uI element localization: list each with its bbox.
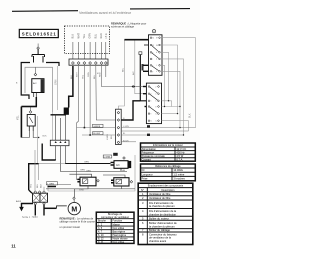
svg-text:la chambre du plénum: la chambre du plénum	[149, 224, 175, 228]
svg-text:BLU/W: BLU/W	[93, 133, 101, 135]
text sortie	[22, 216, 38, 219]
svg-text:6: 6	[155, 101, 156, 103]
svg-text:connecteur de ventilateur: connecteur de ventilateur	[101, 216, 129, 219]
fan connector table text	[98, 213, 129, 244]
svg-text:12: 12	[155, 121, 157, 123]
svg-text:RED: RED	[100, 72, 102, 77]
svg-text:30: 30	[152, 38, 154, 40]
svg-text:RED: RED	[100, 33, 103, 38]
svg-text:chambre avant: chambre avant	[149, 239, 166, 243]
svg-text:Prise: Prise	[142, 177, 148, 181]
svg-text:Masse: Masse	[113, 223, 121, 226]
svg-text:400 Hz: 400 Hz	[176, 150, 185, 154]
dark label on thick wire	[142, 64, 144, 71]
connector C101 dashed box	[65, 26, 110, 54]
svg-text:BLU: BLU	[94, 34, 97, 39]
R2 pin labels	[150, 86, 157, 122]
svg-text:Emplacement des composants: Emplacement des composants	[148, 184, 184, 188]
svg-text:6, 10: 6, 10	[98, 234, 104, 237]
under-hood fuse/relay box outline	[21, 63, 59, 100]
fuse box inner gray enclosure	[25, 67, 53, 112]
svg-text:14 AWG: 14 AWG	[173, 168, 183, 172]
svg-text:86: 86	[156, 45, 158, 47]
svg-text:Broche: Broche	[98, 220, 107, 223]
bus labels near strip	[123, 118, 129, 142]
connector pin above fuse	[37, 44, 40, 50]
svg-text:Longueur: Longueur	[142, 172, 153, 176]
svg-text:Bas régime: Bas régime	[113, 231, 126, 234]
svg-text:GRN: GRN	[80, 170, 85, 172]
thermo switch component	[27, 107, 35, 131]
svg-text:11: 11	[11, 243, 16, 248]
R1 contacts	[150, 37, 160, 72]
junction node	[38, 137, 39, 138]
svg-text:b: b	[156, 52, 157, 54]
svg-text:chambre de distribution: chambre de distribution	[149, 212, 177, 216]
svg-text:WHT: WHT	[77, 71, 79, 77]
svg-text:Informations sur le moteur: Informations sur le moteur	[153, 143, 183, 147]
table: component locations	[138, 183, 193, 244]
harness wires 2-7	[77, 66, 132, 179]
thick battery feed wire	[21, 103, 37, 138]
svg-text:Ventilateur du filtre: Ventilateur du filtre	[149, 196, 171, 200]
wires into 3-pin connector	[56, 115, 66, 140]
harness color labels	[71, 71, 102, 79]
svg-text:Courant: Courant	[142, 158, 152, 162]
svg-text:GRN: GRN	[86, 170, 91, 172]
inline connector symbol	[131, 85, 143, 87]
svg-text:B: B	[98, 72, 100, 74]
wires below 3-pin connector	[56, 146, 66, 172]
table: fan connector pinout	[96, 212, 134, 243]
gray feed wires to hatched pair	[35, 150, 44, 191]
wires from R1 right side	[162, 38, 196, 135]
wire label YEL left	[17, 115, 20, 120]
R1 pin number labels	[152, 38, 158, 74]
svg-text:1,5 mètre: 1,5 mètre	[173, 172, 185, 176]
table: motor info	[141, 143, 196, 161]
ground arrow A203	[16, 200, 24, 212]
fuse symbol above relay box	[32, 49, 45, 63]
C101 wire stubs	[73, 42, 106, 60]
gray wire GRN from fuse box	[55, 66, 58, 110]
note REMARQUE top	[111, 22, 146, 29]
svg-text:BLK: BLK	[41, 183, 43, 188]
svg-text:un premier travail.: un premier travail.	[60, 225, 81, 229]
svg-text:3: 3	[150, 94, 151, 96]
svg-text:BLK: BLK	[71, 74, 73, 79]
connector strip (7-pin)	[69, 59, 108, 65]
connector ring above relay R1	[152, 30, 155, 33]
svg-text:4: 4	[155, 94, 156, 96]
wires relays to lower area	[74, 179, 121, 198]
svg-text:GRN: GRN	[88, 72, 90, 77]
relay B (fan relay 2)	[103, 170, 133, 186]
relay/control box R1	[149, 35, 163, 76]
svg-text:BLU: BLU	[94, 74, 96, 79]
relay/control box R2	[146, 83, 161, 124]
svg-text:11: 11	[150, 121, 152, 123]
svg-text:5: 5	[150, 101, 151, 103]
relay A (fan relay)	[69, 170, 99, 185]
main harness wire 1 (thick)	[69, 66, 73, 108]
svg-text:0,7 A: 0,7 A	[176, 158, 182, 162]
wires into R1 left	[143, 45, 149, 71]
diode box D1	[111, 157, 132, 171]
note REMARQUE bottom	[60, 216, 96, 229]
connector stub box at top of thick wire	[139, 52, 142, 55]
svg-text:B: B	[16, 83, 18, 85]
wire labels bottom left	[30, 183, 42, 188]
wires at hatched pair	[29, 187, 67, 216]
svg-text:7: 7	[150, 106, 151, 108]
svg-text:Non utilisé: Non utilisé	[113, 227, 125, 230]
dark bus labels	[147, 125, 150, 136]
svg-text:WHB: WHB	[79, 190, 84, 192]
svg-text:8: 8	[155, 106, 156, 108]
svg-text:Fréquence: Fréquence	[142, 150, 155, 154]
svg-text:schémas et câblage: schémas et câblage	[111, 25, 135, 29]
svg-text:4, 7: 4, 7	[98, 231, 103, 234]
page title text	[79, 11, 132, 15]
svg-text:GRN: GRN	[89, 33, 92, 39]
svg-text:GRN: GRN	[55, 79, 58, 85]
svg-text:LGRN: LGRN	[107, 134, 109, 140]
ground wire	[22, 204, 34, 208]
svg-text:Boîtier du moteur: Boîtier du moteur	[149, 217, 169, 221]
long bus wires middle	[77, 128, 196, 142]
table motor info text	[142, 143, 187, 162]
thick bus below splice	[51, 114, 67, 116]
R2 contacts	[148, 86, 159, 122]
gray wire from C101 area down right	[118, 40, 143, 109]
svg-text:87: 87	[156, 38, 158, 40]
svg-text:L GRN: L GRN	[47, 183, 54, 185]
relay in fuse box	[32, 67, 44, 92]
svg-text:85: 85	[152, 45, 154, 47]
svg-text:1, 2: 1, 2	[98, 223, 103, 226]
svg-text:BLU: BLU	[123, 67, 125, 72]
relay prong wires	[34, 93, 37, 98]
svg-text:10: 10	[155, 113, 157, 115]
svg-text:GRN/B: GRN/B	[93, 126, 100, 128]
diagram ID label SELD016521	[19, 29, 58, 37]
svg-text:BLU: BLU	[37, 183, 39, 188]
svg-text:Description: Description	[162, 188, 176, 192]
wires right of relays	[46, 185, 135, 189]
junction squares on bus	[84, 127, 185, 136]
table component locations text	[141, 184, 184, 244]
wires into R2 left (thick stubs)	[143, 87, 146, 107]
wire label boxes on bus	[93, 124, 104, 135]
svg-text:WHB: WHB	[120, 170, 126, 172]
wire label right bundle	[123, 67, 135, 75]
3-pin connector C201	[50, 140, 69, 146]
svg-text:YEL: YEL	[83, 33, 86, 38]
svg-text:A/C: A/C	[33, 82, 37, 85]
svg-text:4,5 W: 4,5 W	[176, 154, 183, 158]
label LT GRN box	[103, 155, 112, 159]
svg-text:BLK: BLK	[188, 113, 191, 118]
svg-text:Ventilateur du filtre: Ventilateur du filtre	[149, 192, 171, 196]
svg-text:Sortie 1 : 565X: Sortie 1 : 565X	[22, 216, 38, 219]
middle gray verticals	[38, 112, 53, 164]
svg-text:Haut régime: Haut régime	[113, 234, 127, 237]
svg-text:Puissance nominale: Puissance nominale	[142, 154, 166, 158]
table: connector info	[141, 164, 196, 181]
svg-text:A/C: A/C	[132, 71, 135, 75]
svg-text:SELD016521: SELD016521	[22, 31, 57, 36]
page title rule	[12, 9, 190, 12]
svg-text:BLK: BLK	[72, 34, 75, 39]
svg-text:d: d	[156, 59, 157, 61]
dark harness label	[113, 153, 118, 156]
svg-text:M: M	[71, 206, 77, 213]
svg-text:Fil: Fil	[142, 168, 145, 172]
svg-text:L GRN: L GRN	[104, 157, 111, 159]
svg-text:YEL: YEL	[17, 115, 20, 120]
splice box	[64, 108, 69, 115]
hatched connector pair	[33, 191, 48, 205]
svg-text:A203: A203	[16, 200, 22, 203]
svg-text:BLK: BLK	[43, 136, 48, 138]
label L GRN	[47, 182, 58, 186]
svg-text:A/C: A/C	[116, 164, 120, 167]
svg-text:la chambre du plénum: la chambre du plénum	[149, 204, 175, 208]
svg-text:câblage montre le fil de cours: câblage montre le fil de course	[60, 219, 96, 223]
svg-text:Ventilateurs avant et à l'exté: Ventilateurs avant et à l'extérieur	[79, 11, 132, 15]
gray enclosure bottom	[48, 155, 135, 191]
table connector info text	[142, 164, 186, 181]
svg-text:Alimentation: Alimentation	[142, 147, 157, 151]
C101 wire color labels (rotated)	[72, 33, 108, 39]
svg-text:Non utilisé: Non utilisé	[113, 241, 125, 244]
svg-text:3 broches: 3 broches	[173, 177, 185, 181]
wire label BLK right	[188, 113, 191, 118]
vertical connector strip C605	[116, 109, 122, 144]
junction dots right	[164, 100, 181, 114]
wires from switch to bus	[21, 131, 38, 138]
svg-text:9, 11: 9, 11	[98, 241, 104, 244]
svg-text:Fonction: Fonction	[113, 220, 123, 223]
thick feed to relay R1	[121, 40, 148, 120]
svg-text:LT G: LT G	[105, 33, 108, 38]
svg-text:3, 5: 3, 5	[98, 227, 103, 230]
svg-text:12 V CC: 12 V CC	[176, 147, 186, 151]
svg-text:h: h	[156, 71, 157, 73]
svg-text:Boîtier du câblage: Boîtier du câblage	[149, 228, 170, 232]
svg-text:a: a	[152, 52, 153, 54]
wires from R2 right side	[162, 101, 189, 131]
svg-text:N°: N°	[141, 188, 144, 192]
svg-text:2: 2	[155, 86, 156, 88]
svg-text:e: e	[152, 65, 153, 67]
label GRN on bus	[80, 170, 85, 172]
motor M1	[68, 197, 80, 215]
svg-text:YEL: YEL	[30, 183, 32, 188]
svg-text:WHT: WHT	[77, 33, 80, 39]
svg-text:Référence du câblage: Référence du câblage	[155, 164, 181, 168]
svg-text:g: g	[152, 71, 153, 73]
thick wire L to connector	[29, 144, 56, 191]
page number	[11, 243, 16, 248]
wire to diode box	[65, 163, 110, 165]
svg-text:9: 9	[150, 113, 151, 115]
svg-text:1: 1	[150, 86, 151, 88]
bus wire to relays A/B	[61, 171, 128, 173]
